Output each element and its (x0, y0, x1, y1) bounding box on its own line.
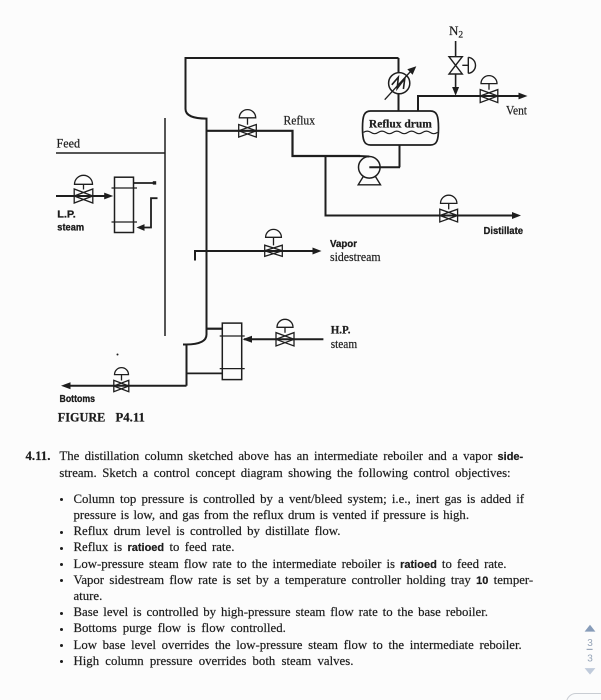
svg-text:Vapor: Vapor (330, 238, 357, 250)
svg-text:Vent: Vent (506, 102, 527, 117)
svg-text:Feed: Feed (57, 135, 81, 150)
svg-text:steam: steam (331, 336, 358, 351)
svg-text:H.P.: H.P. (331, 325, 351, 337)
svg-text:Distillate: Distillate (484, 225, 524, 237)
svg-text:sidestream: sidestream (330, 249, 381, 264)
svg-text:L.P.: L.P. (57, 208, 76, 220)
svg-text:FIGURE: FIGURE (58, 410, 106, 425)
svg-text:N2: N2 (449, 23, 463, 41)
svg-text:P4.11: P4.11 (116, 410, 145, 425)
svg-text:Reflux drum: Reflux drum (369, 119, 432, 131)
svg-text:3: 3 (587, 638, 593, 649)
svg-text:3: 3 (587, 654, 593, 665)
svg-text:Bottoms: Bottoms (60, 394, 96, 405)
svg-text:Reflux: Reflux (284, 113, 316, 128)
svg-text:steam: steam (57, 222, 84, 234)
